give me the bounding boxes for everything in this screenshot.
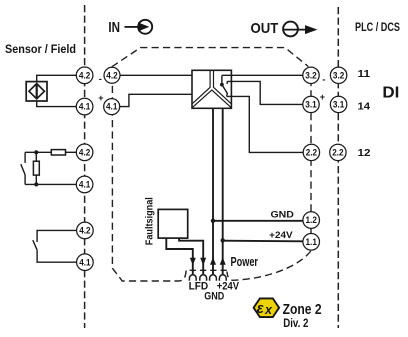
terminal 3.2 device — [303, 67, 319, 83]
terminal 4.2 device — [104, 67, 120, 83]
terminal cup LFD a — [189, 275, 196, 281]
switch blade S2 — [33, 240, 37, 250]
svg-text:Faultsignal: Faultsignal — [145, 197, 156, 245]
svg-text:Sensor / Field: Sensor / Field — [5, 42, 76, 56]
svg-text:Div. 2: Div. 2 — [283, 318, 308, 330]
svg-text:2.2: 2.2 — [306, 148, 317, 158]
terminal 3.1 plc — [330, 96, 346, 112]
wire R1 to 4.2 — [66, 151, 77, 153]
svg-text:Power: Power — [231, 255, 259, 269]
svg-text:+: + — [98, 93, 103, 103]
device outline dashed: top-left diagonal, top edge, top-right diagonal — [112, 48, 308, 67]
terminal 4.1 field g1 — [76, 98, 93, 115]
wire R2 top — [35, 152, 37, 161]
svg-text:2.2: 2.2 — [332, 148, 343, 158]
device outline dashed: tick line across power stubs — [190, 269, 227, 271]
svg-text:4.2: 4.2 — [106, 70, 117, 80]
node dot top group2 — [34, 150, 38, 154]
node dot bottom group2 — [34, 182, 38, 186]
wire U1 to 3.2 — [222, 74, 303, 76]
svg-text:+: + — [320, 92, 325, 102]
svg-text:IN: IN — [108, 19, 120, 36]
svg-text:12: 12 — [358, 148, 372, 159]
svg-text:3.2: 3.2 — [333, 70, 344, 80]
wire 4.1 device to isolator — [120, 94, 192, 106]
wire bottom rail group2 to 4.1 — [25, 183, 76, 185]
device outline dashed: bottom-right curve to power cups — [227, 251, 311, 280]
faultsignal block — [158, 209, 188, 238]
svg-text:4.2: 4.2 — [79, 226, 90, 236]
svg-text:PLC / DCS: PLC / DCS — [355, 20, 400, 34]
svg-text:ε: ε — [257, 301, 265, 317]
wire to 4.1 third — [37, 250, 76, 262]
arrow down on LFD stub B — [200, 258, 206, 265]
svg-text:4.1: 4.1 — [79, 180, 90, 190]
terminal 3.2 plc — [330, 67, 346, 83]
svg-text:4.1: 4.1 — [79, 102, 90, 112]
svg-text:4.1: 4.1 — [106, 102, 117, 112]
wire 4.2 device to isolator — [120, 74, 192, 76]
icon: IN arrow into circle — [125, 20, 153, 34]
arrow down on LFD stub A — [190, 258, 196, 265]
terminal 4.2 field g3 — [77, 222, 94, 239]
contact blade — [222, 85, 227, 97]
svg-text:-: - — [99, 74, 102, 85]
terminal 4.1 field g2 — [76, 176, 93, 193]
arrow up on GND rail — [210, 257, 216, 265]
terminal 2.2 device — [303, 144, 319, 160]
wire switch to bottom rail — [24, 175, 26, 184]
svg-text:1.1: 1.1 — [306, 237, 317, 247]
wire sensor bottom to 4.1 — [37, 101, 77, 107]
isolator symbol right funnel line — [214, 70, 232, 103]
device outline dashed: bottom-left curl and bottom edge — [112, 68, 186, 282]
boundary: Sensor/Field dashed line — [84, 5, 86, 328]
svg-text:-: - — [322, 75, 325, 86]
switch S2 group — [33, 230, 77, 262]
svg-text:4.2: 4.2 — [79, 70, 90, 80]
wire sensor top to 4.2 — [37, 75, 77, 81]
contact: common stub and dot — [221, 75, 223, 84]
proximity sensor B1 (NAMUR) — [26, 82, 47, 101]
svg-text:OUT: OUT — [251, 20, 279, 37]
svg-text:GND: GND — [271, 210, 295, 221]
wire 24V to 1.1 — [223, 240, 303, 243]
svg-text:Zone 2: Zone 2 — [283, 302, 322, 318]
icon: OUT arrow out of circle — [283, 22, 317, 37]
terminal cup LFD b — [200, 275, 207, 281]
terminal 3.1 device — [303, 96, 319, 112]
terminal 4.1 field g3 — [77, 254, 94, 271]
isolator symbol left funnel line — [192, 70, 210, 103]
isolator symbol lower V line — [192, 90, 231, 107]
power rail 24V vertical — [222, 108, 224, 274]
wire U1 to 2.2 — [227, 96, 304, 152]
terminal 1.1 device — [303, 234, 320, 251]
resistor R1 horizontal — [51, 150, 65, 155]
svg-text:4.2: 4.2 — [79, 147, 90, 157]
arrow up on 24V rail — [220, 257, 226, 265]
terminal 2.2 plc — [330, 144, 346, 160]
terminal 4.1 device — [104, 99, 120, 115]
Ex marking hexagon — [254, 298, 280, 317]
node dot 24V — [221, 238, 225, 242]
svg-text:+24V: +24V — [269, 230, 293, 241]
svg-text:11: 11 — [358, 69, 371, 80]
wire GND to 1.2 — [213, 220, 303, 222]
wire top rail group2 — [25, 151, 51, 153]
wire U1 to 3.1 — [227, 81, 303, 104]
wire faultsignal output A — [166, 238, 193, 274]
svg-text:1.2: 1.2 — [306, 215, 317, 225]
terminal 4.2 field g2 — [76, 144, 93, 161]
svg-text:14: 14 — [358, 101, 371, 112]
terminal 4.2 field g1 — [76, 67, 93, 84]
device outline dashed: right edge vertical through 3.2 3.1 2.2 1.2 1.1 — [310, 68, 312, 249]
svg-text:3.1: 3.1 — [333, 100, 344, 110]
isolation amplifier U1 block — [192, 70, 231, 108]
resistor R2 vertical — [33, 161, 39, 175]
terminal 1.2 device — [303, 212, 320, 229]
wire from 4.2 third — [37, 230, 76, 242]
svg-text:DI: DI — [382, 84, 399, 101]
wire switch branch down — [24, 152, 26, 163]
svg-text:x: x — [264, 303, 273, 317]
svg-text:GND: GND — [204, 291, 224, 303]
contact fixed stub — [226, 81, 228, 84]
power rail GND vertical — [212, 108, 214, 274]
svg-text:3.1: 3.1 — [305, 100, 316, 110]
switch S1 with resistors group — [21, 150, 77, 187]
wire faultsignal output B — [179, 238, 203, 274]
wire R2 bottom — [35, 175, 37, 184]
terminal cup GND supply — [210, 275, 217, 281]
node dot GND — [211, 219, 215, 223]
switch blade S1 — [21, 164, 25, 175]
boundary: PLC/DCS dashed line — [337, 7, 339, 328]
svg-text:3.2: 3.2 — [305, 70, 316, 80]
terminal cup 24V supply — [219, 275, 226, 281]
svg-text:4.1: 4.1 — [79, 257, 90, 267]
